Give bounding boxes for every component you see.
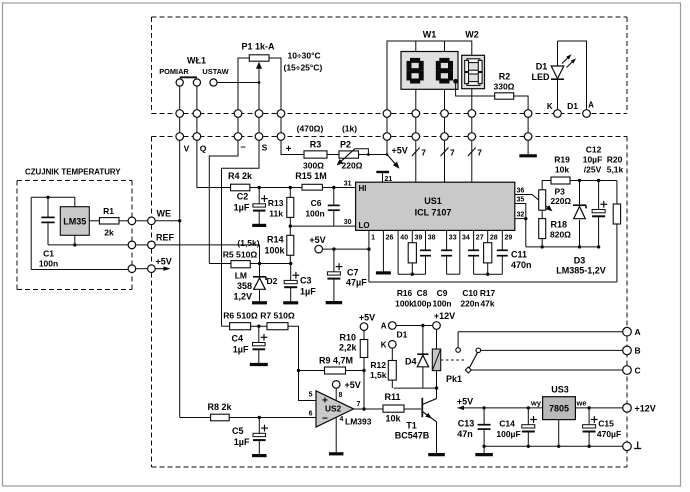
- svg-text:4: 4: [340, 416, 344, 423]
- svg-text:A: A: [635, 327, 641, 337]
- svg-text:D1: D1: [567, 101, 578, 111]
- node R18 bottom: [541, 245, 544, 248]
- capacitor C2: [234, 188, 268, 226]
- svg-text:(15÷25°C): (15÷25°C): [284, 63, 323, 73]
- svg-text:LO: LO: [359, 221, 370, 230]
- svg-text:C15: C15: [598, 419, 614, 429]
- node LM35 gnd pin: [74, 235, 76, 245]
- svg-text:Q: Q: [200, 144, 207, 154]
- wire pin36 wiper: [515, 194, 532, 196]
- IC LM35 sensor: [60, 207, 89, 236]
- capacitor C3: [283, 264, 316, 303]
- svg-text:C5: C5: [232, 426, 244, 436]
- svg-text:11k: 11k: [269, 209, 283, 219]
- potentiometer P3 wiper arrow: [532, 195, 549, 209]
- terminal +5V US2 pin8: [332, 381, 340, 389]
- node output: [362, 407, 365, 410]
- svg-text:C9: C9: [437, 288, 448, 298]
- svg-text:C7: C7: [347, 268, 359, 278]
- node C4: [251, 325, 267, 327]
- wire 5V rail: [484, 407, 542, 409]
- capacitor C15: [583, 408, 622, 446]
- US1 bottom pin numbers: [371, 235, 512, 242]
- svg-text:+: +: [286, 144, 292, 155]
- svg-text:C11: C11: [511, 250, 527, 260]
- terminal A out: [623, 327, 632, 336]
- ground US2 pin4: [335, 418, 337, 453]
- capacitor C9: [446, 230, 448, 249]
- potentiometer P1 1k-A: [238, 42, 281, 110]
- svg-text:R1: R1: [103, 206, 114, 216]
- wire ref low node: [526, 246, 599, 248]
- wire V column (WE net): [179, 140, 181, 417]
- terminal A LED main: [389, 322, 397, 330]
- relay contact arm: [469, 349, 479, 368]
- bus wires to US1 top with /7 marks: [412, 140, 483, 182]
- svg-text:100n: 100n: [39, 259, 58, 269]
- terminal WE pair: [128, 217, 136, 225]
- svg-text:26: 26: [386, 235, 394, 242]
- svg-text:100n: 100n: [305, 209, 324, 219]
- svg-text:+5V: +5V: [457, 397, 473, 407]
- svg-text:220Ω: 220Ω: [551, 196, 572, 206]
- wire P2 to +5V node: [359, 154, 388, 156]
- svg-text:R15 1M: R15 1M: [295, 171, 327, 181]
- svg-text:1,2V: 1,2V: [233, 292, 252, 302]
- svg-text:7805: 7805: [549, 404, 569, 414]
- svg-text:+12V: +12V: [434, 311, 455, 321]
- svg-text:1µF: 1µF: [233, 345, 249, 355]
- terminal K LED: [554, 110, 562, 118]
- resistor R18: [539, 210, 571, 247]
- svg-text:28: 28: [490, 235, 498, 242]
- svg-text:33: 33: [449, 235, 457, 242]
- wire pin34: [459, 230, 461, 274]
- +5V supply arrow: [155, 268, 165, 270]
- capacitor C14: [496, 408, 537, 446]
- svg-text:LM35: LM35: [63, 217, 86, 227]
- capacitor C12: [583, 145, 607, 247]
- resistor R3: [303, 140, 327, 171]
- resistor R20: [607, 155, 624, 283]
- svg-text:WŁ1: WŁ1: [187, 56, 206, 66]
- svg-text:D2: D2: [267, 276, 278, 286]
- svg-text:100n: 100n: [432, 299, 451, 309]
- node C6 top: [332, 186, 335, 189]
- resistor R16: [411, 230, 413, 242]
- transistor T1 BC547B: [395, 388, 437, 453]
- svg-text:47k: 47k: [481, 299, 495, 309]
- node C13 top: [482, 406, 485, 409]
- svg-text:1: 1: [371, 235, 375, 242]
- svg-text:2,2k: 2,2k: [339, 343, 358, 353]
- svg-text:we: we: [575, 399, 586, 408]
- svg-text:300Ω: 300Ω: [303, 161, 324, 171]
- capacitor C4: [231, 326, 267, 364]
- switch WL1 POMIAR/USTAW: [159, 56, 228, 110]
- svg-text:220n: 220n: [460, 299, 479, 309]
- svg-text:R18: R18: [551, 220, 568, 230]
- diode D4: [405, 326, 429, 389]
- resistor R19: [542, 155, 570, 190]
- svg-text:358: 358: [237, 281, 252, 291]
- svg-text:32: 32: [517, 212, 525, 219]
- svg-text:R9 4,7M: R9 4,7M: [319, 356, 353, 366]
- node R13 top: [289, 186, 292, 189]
- wire collector node: [394, 387, 437, 389]
- svg-text:+5V: +5V: [359, 313, 375, 323]
- wire top ref node: [570, 180, 617, 182]
- wire sensor +V top: [31, 197, 75, 206]
- svg-text:C3: C3: [300, 276, 312, 286]
- wire LO node to pin30: [290, 225, 355, 227]
- svg-text:100k: 100k: [395, 299, 414, 309]
- node pin1/+5V: [367, 247, 370, 250]
- svg-text:1µF: 1µF: [234, 203, 250, 213]
- resistor R11: [383, 392, 421, 424]
- svg-text:LM385-1,2V: LM385-1,2V: [556, 266, 606, 276]
- node C1 top: [46, 196, 49, 199]
- svg-text:HI: HI: [359, 184, 367, 193]
- terminal K LED main: [389, 341, 397, 349]
- svg-text:P1 1k-A: P1 1k-A: [241, 42, 275, 52]
- relay coil Pk1: [432, 329, 462, 388]
- svg-text:S: S: [262, 143, 268, 153]
- svg-text:/25V: /25V: [584, 165, 602, 175]
- capacitor C13: [457, 408, 490, 446]
- svg-text:(1k): (1k): [342, 124, 357, 134]
- svg-text:220Ω: 220Ω: [342, 161, 363, 171]
- resistor R17: [487, 230, 489, 242]
- resistor R5: [209, 250, 290, 268]
- wire display anode bus: [387, 41, 472, 110]
- ground R2 column: [527, 140, 529, 154]
- svg-text:C13: C13: [458, 419, 475, 429]
- svg-text:D3: D3: [574, 256, 586, 266]
- terminal +5V US1: [315, 245, 323, 253]
- relay contact pivot: [465, 367, 471, 373]
- svg-text:7: 7: [477, 148, 482, 158]
- svg-text:(1,5k): (1,5k): [237, 238, 259, 248]
- wire A to +12V: [396, 325, 432, 327]
- svg-text:1,5k: 1,5k: [370, 370, 387, 380]
- svg-text:36: 36: [517, 188, 525, 195]
- svg-text:R13: R13: [268, 198, 284, 208]
- node WE junction: [178, 219, 181, 222]
- wire sensor left vertical: [30, 197, 32, 269]
- wire 12V rail: [575, 407, 622, 409]
- node C2: [258, 186, 261, 189]
- potentiometer P2: [327, 140, 370, 171]
- svg-text:38: 38: [428, 235, 436, 242]
- svg-text:D1: D1: [536, 62, 548, 72]
- svg-text:C2: C2: [237, 192, 249, 202]
- wire pin35: [515, 204, 526, 247]
- svg-text:10k: 10k: [385, 414, 401, 424]
- svg-text:LM: LM: [235, 271, 247, 281]
- svg-text:1µF: 1µF: [234, 437, 250, 447]
- +5V arrow to pin 21: [387, 155, 397, 166]
- svg-text:Pk1: Pk1: [446, 374, 462, 384]
- svg-text:6: 6: [309, 411, 313, 418]
- svg-text:5,1k: 5,1k: [607, 165, 624, 175]
- svg-text:A: A: [588, 101, 594, 110]
- svg-text:W1: W1: [423, 30, 437, 40]
- svg-text:R19: R19: [554, 155, 570, 165]
- svg-text:+5V: +5V: [309, 235, 325, 245]
- wire sensor bottom +5V: [31, 269, 128, 271]
- resistor R14: [264, 226, 293, 263]
- wire R15 to pin31: [322, 187, 355, 189]
- resistor R8: [180, 402, 316, 421]
- svg-text:T1: T1: [406, 421, 417, 431]
- svg-text:C1: C1: [43, 249, 54, 259]
- svg-text:R2: R2: [499, 72, 511, 82]
- +5V arrow left: [458, 406, 465, 411]
- terminal B out: [623, 346, 632, 355]
- wire pin40: [397, 230, 399, 274]
- svg-text:330Ω: 330Ω: [494, 82, 515, 92]
- wire group 27/28/29 bottom: [474, 273, 503, 275]
- svg-text:R6 510Ω: R6 510Ω: [223, 311, 258, 321]
- labels bottom components: [395, 288, 495, 309]
- node R14/C3: [289, 262, 292, 265]
- svg-text:USTAW: USTAW: [202, 67, 228, 76]
- wire minus column route: [209, 140, 238, 263]
- svg-text:C6: C6: [311, 198, 322, 208]
- svg-text:40: 40: [400, 235, 408, 242]
- svg-text:10÷30°C: 10÷30°C: [288, 51, 321, 61]
- wire R2 to connector: [514, 96, 528, 110]
- svg-text:470n: 470n: [511, 260, 532, 270]
- svg-text:P3: P3: [555, 187, 566, 197]
- IC US1 ICL 7107: [356, 182, 515, 230]
- capacitor C5: [232, 418, 268, 456]
- svg-text:R16: R16: [397, 288, 413, 298]
- wire group 33/34 bottom: [447, 273, 460, 275]
- node C14 bottom: [527, 445, 530, 448]
- wire ground rail: [484, 445, 623, 447]
- wire WE to V: [155, 220, 180, 222]
- svg-text:35: 35: [517, 197, 525, 204]
- svg-text:R4 2k: R4 2k: [228, 171, 253, 181]
- resistor R2: [494, 72, 515, 100]
- wire plus column to R3: [281, 140, 304, 154]
- svg-text:R3: R3: [310, 140, 322, 150]
- svg-text:V: V: [184, 144, 190, 154]
- svg-text:820Ω: 820Ω: [550, 230, 571, 240]
- svg-text:W2: W2: [465, 30, 479, 40]
- svg-text:C8: C8: [417, 288, 428, 298]
- svg-text:R8 2k: R8 2k: [207, 402, 232, 412]
- wire pin1 down: [368, 230, 370, 282]
- node R13/R14: [289, 224, 292, 227]
- relay mechanical link: [441, 359, 466, 361]
- svg-text:WE: WE: [157, 209, 172, 219]
- wire R4 to R15: [250, 187, 302, 189]
- dashed box: display/control board (top): [152, 17, 628, 114]
- node C7: [332, 247, 335, 250]
- node C15 top: [587, 406, 590, 409]
- svg-text:R14: R14: [267, 235, 284, 245]
- svg-text:7: 7: [357, 401, 361, 408]
- svg-text:R10: R10: [339, 333, 356, 343]
- svg-text:−: −: [322, 414, 328, 425]
- svg-text:30: 30: [344, 219, 352, 226]
- svg-text:8: 8: [339, 392, 343, 399]
- svg-text:1µF: 1µF: [300, 287, 316, 297]
- svg-text:BC547B: BC547B: [395, 431, 430, 441]
- potentiometer P3 body: [539, 187, 572, 211]
- connector row wires and pins: [176, 110, 532, 141]
- node REF/D2: [258, 262, 261, 265]
- svg-text:CZUJNIK TEMPERATURY: CZUJNIK TEMPERATURY: [25, 168, 121, 177]
- svg-text:47n: 47n: [457, 429, 473, 439]
- wire Q column to R4: [197, 140, 231, 187]
- svg-text:R11: R11: [384, 392, 400, 402]
- svg-text:7: 7: [450, 148, 455, 158]
- svg-text:7: 7: [421, 148, 426, 158]
- svg-text:+5V: +5V: [345, 380, 361, 390]
- IC US3 7805: [530, 385, 587, 420]
- svg-text:ICL 7107: ICL 7107: [415, 208, 452, 218]
- terminal C out: [623, 366, 632, 375]
- resistor R15: [295, 171, 327, 190]
- svg-text:100p: 100p: [412, 299, 431, 309]
- wire V+ rail pin1 to R20: [369, 281, 617, 283]
- svg-text:R12: R12: [370, 360, 386, 370]
- svg-text:10k: 10k: [555, 165, 569, 175]
- wire S column route: [222, 140, 260, 326]
- terminal REF pair: [128, 241, 136, 249]
- svg-text:US3: US3: [551, 385, 569, 395]
- svg-text:R20: R20: [607, 155, 623, 165]
- terminal A LED: [583, 110, 591, 118]
- svg-text:27: 27: [476, 235, 484, 242]
- resistor R9: [297, 356, 364, 375]
- wire pin32: [515, 218, 526, 220]
- svg-text:US2: US2: [325, 404, 342, 414]
- ground pin 26: [382, 230, 384, 271]
- svg-text:A: A: [381, 322, 387, 331]
- resistor R10: [339, 330, 368, 409]
- dashed box: temperature sensor CZUJNIK TEMPERATURY: [17, 168, 132, 290]
- node collector: [435, 386, 438, 389]
- svg-text:(470Ω): (470Ω): [297, 124, 324, 134]
- svg-text:K: K: [547, 102, 553, 111]
- US3 ground pin: [558, 420, 560, 447]
- svg-text:470µF: 470µF: [597, 429, 621, 439]
- resistor R13: [268, 188, 294, 227]
- svg-text:10µF: 10µF: [583, 155, 603, 165]
- wire +5V to pin1: [323, 248, 369, 250]
- terminal ground out: [623, 442, 632, 451]
- svg-text:2k: 2k: [104, 228, 114, 238]
- svg-text:wy: wy: [530, 399, 542, 408]
- resistor R12: [370, 348, 396, 388]
- terminal +5V R10: [360, 323, 368, 331]
- terminal +12V in: [623, 404, 632, 413]
- diode D3 LM385-1,2V: [556, 181, 606, 276]
- svg-text:US1: US1: [424, 196, 442, 206]
- display W2 single 7-segment: [462, 55, 485, 109]
- svg-text:B: B: [635, 346, 641, 356]
- terminal +12V relay: [433, 322, 441, 330]
- svg-text:C14: C14: [499, 419, 515, 429]
- svg-text:C4: C4: [231, 334, 243, 344]
- wire sensor gnd/mid: [48, 244, 128, 246]
- US1 pin 21 bar: [376, 171, 389, 173]
- svg-text:5: 5: [309, 392, 313, 399]
- resistor R4: [228, 171, 253, 191]
- svg-text:POMIAR: POMIAR: [159, 67, 189, 76]
- capacitor C7: [326, 249, 368, 303]
- resistor R6: [222, 311, 258, 330]
- dashed box: main board: [152, 137, 628, 468]
- svg-text:D1: D1: [397, 330, 408, 340]
- svg-text:R7 510Ω: R7 510Ω: [260, 311, 295, 321]
- ground symbol label: [634, 448, 641, 450]
- svg-text:C12: C12: [586, 145, 602, 155]
- svg-text:–: –: [240, 142, 245, 152]
- svg-text:D4: D4: [405, 357, 417, 367]
- node C14 top: [527, 406, 530, 409]
- wire pivot to C: [470, 369, 622, 371]
- svg-text:100µF: 100µF: [496, 429, 520, 439]
- ground T1 emitter: [428, 453, 445, 456]
- svg-text:34: 34: [462, 235, 470, 242]
- svg-text:47µF: 47µF: [346, 278, 367, 288]
- display W1 dual 7-segment: [401, 52, 458, 110]
- svg-text:K: K: [381, 341, 387, 350]
- svg-text:LM393: LM393: [345, 417, 372, 427]
- node D3 top: [578, 179, 581, 182]
- relay contact B: [476, 348, 481, 353]
- svg-text:P2: P2: [340, 140, 351, 150]
- capacitor C1: [39, 197, 58, 268]
- capacitor C10: [473, 230, 475, 249]
- svg-text:R17: R17: [480, 288, 496, 298]
- capacitor C11: [501, 230, 503, 249]
- wire US2 output: [354, 408, 383, 410]
- svg-text:+5V: +5V: [392, 146, 408, 156]
- svg-text:C: C: [635, 365, 641, 375]
- svg-text:29: 29: [505, 235, 513, 242]
- resistor R1: [89, 206, 128, 238]
- svg-text:REF: REF: [156, 233, 175, 243]
- wire USTAW to P1 wiper: [217, 82, 259, 84]
- node D4 top: [421, 324, 424, 327]
- wire +5V column stub: [386, 140, 388, 154]
- node pin32/35: [524, 217, 527, 220]
- LED D1: [532, 41, 587, 110]
- wire decimal point to R2: [456, 84, 495, 97]
- svg-text:+5V: +5V: [156, 256, 172, 266]
- resistor R7: [260, 311, 316, 401]
- wire group 40/39/38 bottom: [398, 273, 425, 275]
- svg-text:31: 31: [344, 181, 352, 188]
- svg-text:100k: 100k: [264, 246, 285, 256]
- relay contact A: [456, 348, 461, 353]
- capacitor C6: [305, 188, 339, 227]
- capacitor C8: [425, 230, 427, 249]
- node C15 bottom: [587, 445, 590, 448]
- diode D2 LM385: [233, 264, 277, 303]
- op-amp US2 LM393: [309, 391, 372, 427]
- svg-text:+12V: +12V: [635, 403, 656, 413]
- svg-text:C10: C10: [462, 288, 478, 298]
- terminal +5V pair: [128, 265, 136, 273]
